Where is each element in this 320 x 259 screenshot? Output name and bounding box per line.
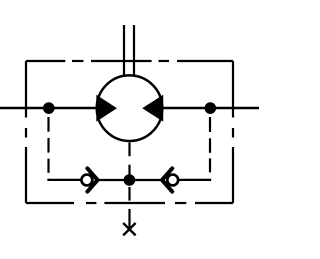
- wire: case drain from motor bottom to drain node (dashed): [128, 143, 130, 176]
- junction node A (dot): [43, 102, 55, 114]
- check valve CV2 ball: [167, 175, 178, 186]
- plugged drain port (X symbol): [123, 223, 135, 235]
- wire: drain to plugged port (dashed): [128, 187, 130, 230]
- wire: drain line from node B down (dashed): [179, 117, 210, 180]
- motor housing enclosure: bottom edge (dashed): [26, 202, 233, 204]
- motor housing enclosure: right edge (dashed): [232, 61, 234, 203]
- motor housing enclosure: top edge (dashed): [26, 60, 233, 62]
- motor displacement triangle (right, pointing in): [142, 95, 163, 122]
- drain junction node (dot): [124, 174, 136, 186]
- motor displacement triangle (left, pointing in): [96, 95, 117, 122]
- wire: port B main line (right): [163, 107, 259, 110]
- wire: check valve CV2 outlet to drain node: [131, 179, 161, 181]
- wire: check valve CV1 outlet to drain node: [98, 179, 128, 181]
- hydraulic motor M1 (circle): [97, 75, 163, 141]
- output shaft (double line): [124, 25, 134, 76]
- motor housing enclosure: left edge (dashed): [25, 61, 27, 203]
- check valve CV2 seat: [162, 168, 172, 191]
- junction node B (dot): [205, 102, 217, 114]
- check valve CV1 seat: [87, 168, 97, 191]
- wire: drain line from node A down (dashed): [49, 117, 81, 180]
- check valve CV1 ball: [81, 175, 92, 186]
- wire: port A main line (left): [0, 107, 97, 110]
